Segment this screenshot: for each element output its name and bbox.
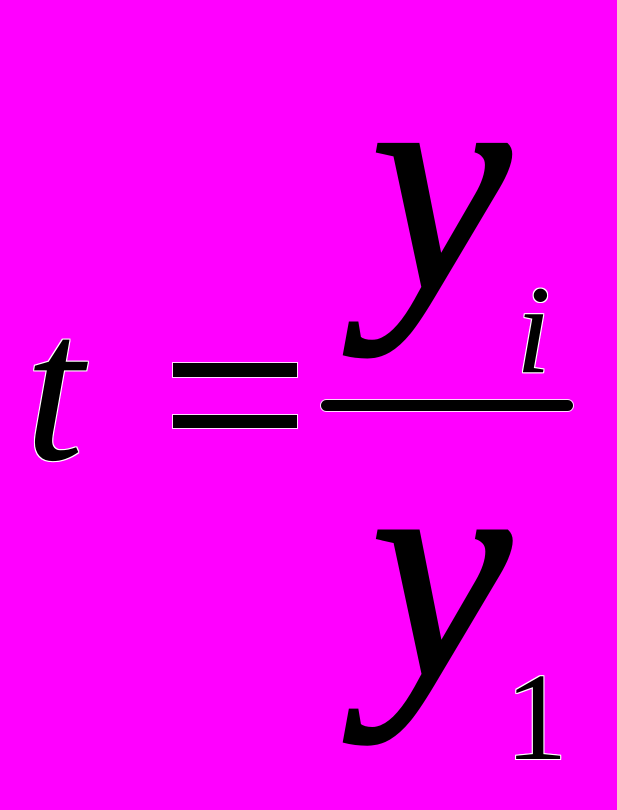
denominator y [371, 412, 511, 728]
equals sign bottom bar [173, 415, 297, 428]
variable t [25, 282, 84, 494]
numerator y [371, 26, 511, 341]
subscript i [516, 268, 551, 394]
subscript 1 [505, 656, 568, 781]
fraction bar [321, 400, 573, 411]
equals sign top bar [173, 363, 297, 377]
